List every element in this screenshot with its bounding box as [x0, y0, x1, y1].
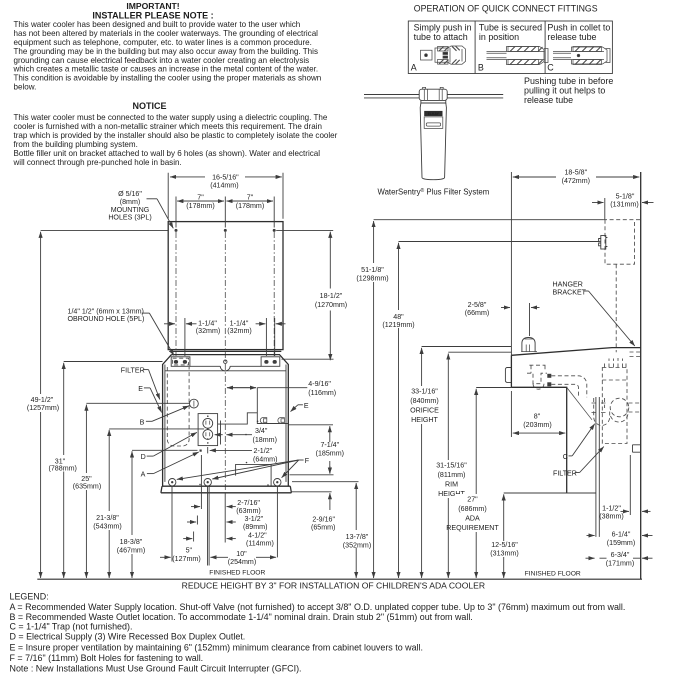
svg-text:This water cooler has been des: This water cooler has been designed and … — [14, 20, 301, 29]
dim 2-1/2 — [208, 447, 278, 463]
svg-text:C = 1-1/4" Trap (not furnished: C = 1-1/4" Trap (not furnished). — [10, 622, 133, 632]
svg-text:HOLES (3PL): HOLES (3PL) — [108, 214, 151, 222]
svg-text:BRACKET: BRACKET — [553, 288, 587, 296]
svg-text:REDUCE HEIGHT BY 3" FOR INSTAL: REDUCE HEIGHT BY 3" FOR INSTALLATION OF … — [182, 581, 485, 591]
svg-text:(32mm): (32mm) — [196, 327, 220, 335]
svg-text:7": 7" — [197, 194, 204, 202]
svg-text:Bottle filler unit on bracket: Bottle filler unit on bracket attached t… — [14, 149, 321, 158]
svg-text:LEGEND:: LEGEND: — [10, 592, 49, 602]
bubbler — [522, 338, 535, 352]
svg-text:WaterSentry® Plus Filter Syste: WaterSentry® Plus Filter System — [378, 187, 490, 197]
svg-text:NOTICE: NOTICE — [132, 101, 166, 111]
hanger teeth at wall — [630, 352, 641, 357]
svg-text:Tube is secured: Tube is secured — [479, 23, 542, 33]
svg-text:equipment such as telephone, c: equipment such as telephone, computer, e… — [14, 38, 312, 47]
svg-text:33-1/16": 33-1/16" — [411, 388, 438, 396]
label obround holes — [68, 308, 175, 356]
dim 4-9/16 — [227, 380, 336, 397]
water supply location A dot — [200, 450, 202, 452]
top seam with center notch and hole — [190, 366, 261, 371]
svg-text:(472mm): (472mm) — [562, 177, 590, 185]
svg-text:Simply push in: Simply push in — [414, 23, 472, 33]
svg-text:(64mm): (64mm) — [253, 455, 277, 463]
svg-text:(127mm): (127mm) — [172, 555, 200, 563]
svg-text:1-1/2": 1-1/2" — [602, 504, 621, 512]
svg-text:6-1/4": 6-1/4" — [612, 531, 631, 539]
drain stub at wall — [633, 445, 641, 452]
ext line 48 level — [399, 241, 600, 243]
svg-text:This water cooler must be conn: This water cooler must be connected to t… — [14, 113, 328, 122]
svg-text:3-1/2": 3-1/2" — [245, 515, 264, 523]
svg-text:27": 27" — [467, 496, 478, 504]
svg-text:(65mm): (65mm) — [311, 524, 335, 532]
leaders FILTER E B D A — [121, 367, 199, 479]
svg-text:(788mm): (788mm) — [49, 464, 77, 472]
finished floor line — [37, 578, 642, 580]
svg-text:HEIGHT: HEIGHT — [411, 416, 438, 424]
svg-text:FILTER: FILTER — [553, 469, 577, 477]
svg-text:(1219mm): (1219mm) — [382, 321, 414, 329]
wall line — [640, 172, 642, 579]
trap (dashed) — [594, 398, 641, 426]
mounting holes (3PL) — [175, 229, 178, 232]
svg-text:release tube: release tube — [547, 32, 596, 42]
svg-text:from the building plumbing sys: from the building plumbing system. — [14, 140, 138, 149]
svg-text:13-7/8": 13-7/8" — [346, 533, 369, 541]
svg-text:(1257mm): (1257mm) — [27, 404, 59, 412]
svg-text:8": 8" — [534, 412, 541, 420]
svg-text:48": 48" — [393, 313, 404, 321]
legend — [10, 592, 626, 674]
svg-text:(159mm): (159mm) — [607, 539, 635, 547]
fitting C — [553, 47, 610, 65]
svg-text:5": 5" — [186, 547, 193, 555]
svg-text:B = Recommended Waste Outlet l: B = Recommended Waste Outlet location. T… — [10, 612, 473, 622]
svg-text:(66mm): (66mm) — [465, 309, 489, 317]
C and FILTER leaders (side) — [553, 387, 604, 477]
svg-text:2-1/2": 2-1/2" — [254, 447, 273, 455]
svg-text:Push in collet to: Push in collet to — [547, 23, 610, 33]
svg-text:(414mm): (414mm) — [210, 182, 238, 190]
svg-text:(254mm): (254mm) — [228, 558, 256, 566]
dim 6-3/4 — [586, 551, 653, 568]
svg-text:E: E — [138, 385, 143, 393]
svg-text:release tube: release tube — [524, 95, 573, 105]
svg-text:F = 7/16" (11mm) Bolt Holes fo: F = 7/16" (11mm) Bolt Holes for fastenin… — [10, 653, 204, 663]
svg-text:3/4": 3/4" — [255, 427, 268, 435]
svg-text:A: A — [411, 62, 417, 72]
svg-text:in position: in position — [479, 32, 519, 42]
svg-text:18-5/8": 18-5/8" — [564, 169, 587, 177]
svg-text:Note : New Installations Must: Note : New Installations Must Use Ground… — [10, 663, 302, 673]
dim 6-1/4 — [587, 531, 653, 547]
svg-text:B: B — [478, 62, 484, 72]
svg-text:tube to attach: tube to attach — [414, 32, 468, 42]
svg-text:7": 7" — [247, 194, 254, 202]
svg-text:18-3/8": 18-3/8" — [120, 538, 143, 546]
top-left notice text block — [13, 1, 338, 167]
svg-text:(89mm): (89mm) — [243, 523, 267, 531]
svg-text:2-9/16": 2-9/16" — [312, 516, 335, 524]
fitting A — [421, 46, 466, 64]
svg-text:(185mm): (185mm) — [316, 449, 344, 457]
svg-text:HANGER: HANGER — [553, 280, 583, 288]
svg-text:F: F — [305, 457, 310, 465]
svg-text:C: C — [547, 62, 554, 72]
hanger bracket label and leader — [553, 280, 635, 346]
left height dims — [26, 230, 204, 578]
svg-text:4-1/2": 4-1/2" — [248, 532, 267, 540]
svg-text:FILTER: FILTER — [121, 367, 145, 375]
dims 1-1/4 left and right — [164, 318, 286, 356]
svg-text:RIM: RIM — [445, 481, 458, 489]
svg-text:(63mm): (63mm) — [236, 507, 260, 515]
svg-text:(543mm): (543mm) — [93, 523, 121, 531]
svg-text:OBROUND HOLE (5PL): OBROUND HOLE (5PL) — [68, 315, 145, 323]
svg-text:ADA: ADA — [465, 515, 480, 523]
svg-text:10": 10" — [236, 550, 247, 558]
svg-text:6-3/4": 6-3/4" — [611, 551, 630, 559]
pipe clamp ticks — [592, 403, 606, 413]
svg-text:(8mm): (8mm) — [120, 198, 141, 206]
svg-text:(131mm): (131mm) — [610, 201, 638, 209]
svg-text:(840mm): (840mm) — [410, 397, 438, 405]
cabinet bottom — [504, 492, 596, 494]
svg-text:49-1/2": 49-1/2" — [31, 396, 54, 404]
svg-text:C: C — [563, 453, 568, 461]
svg-text:IMPORTANT!: IMPORTANT! — [126, 1, 179, 11]
dim 5-1/8 — [592, 192, 654, 219]
svg-text:2-7/16": 2-7/16" — [237, 499, 260, 507]
dim 16-5/16 — [168, 173, 283, 219]
svg-text:A: A — [141, 471, 146, 479]
svg-text:trap which is provided by the: trap which is provided by the installer … — [14, 131, 338, 140]
electrical outlet D — [198, 414, 218, 446]
svg-text:below.: below. — [14, 83, 37, 92]
dims 7" / 7" — [176, 194, 274, 228]
label mounting holes — [108, 190, 173, 228]
svg-text:(635mm): (635mm) — [73, 483, 101, 491]
svg-text:51-1/8": 51-1/8" — [361, 266, 384, 274]
svg-text:(1270mm): (1270mm) — [315, 301, 347, 309]
svg-text:The grounding may be in the bu: The grounding may be in the building but… — [14, 47, 318, 56]
svg-text:(114mm): (114mm) — [246, 540, 274, 548]
svg-text:(811mm): (811mm) — [438, 471, 466, 479]
svg-text:(352mm): (352mm) — [343, 541, 371, 549]
svg-text:(313mm): (313mm) — [490, 549, 518, 557]
quick connect fittings panel — [408, 4, 613, 106]
bolt holes F (3) — [169, 479, 281, 486]
svg-text:16-5/16": 16-5/16" — [212, 173, 239, 181]
basin top and front — [511, 348, 640, 356]
upper mounting brackets with obround holes — [171, 357, 190, 367]
bottle filler in-wall chase (dashed) — [374, 219, 603, 221]
supply pipe (solid) — [596, 397, 599, 537]
svg-text:Pushing tube in before: Pushing tube in before — [524, 76, 613, 86]
svg-text:(178mm): (178mm) — [186, 202, 214, 210]
svg-text:2-5/8": 2-5/8" — [468, 301, 487, 309]
dim 2-9/16 and 13-7/8 — [290, 466, 372, 578]
side height dims stack — [356, 221, 518, 578]
svg-text:(32mm): (32mm) — [227, 327, 251, 335]
interior step outline and clips — [218, 388, 289, 425]
svg-text:MOUNTING: MOUNTING — [111, 206, 150, 214]
filter location dashed (front view) — [167, 367, 189, 446]
dim 2-5/8 — [465, 301, 540, 336]
base band — [161, 486, 292, 493]
dim 18-1/2 — [276, 230, 347, 360]
louver panel — [236, 464, 272, 485]
svg-text:(203mm): (203mm) — [523, 421, 551, 429]
svg-text:will connect through pre-punch: will connect through pre-punched hole in… — [13, 158, 182, 167]
svg-text:D: D — [141, 453, 146, 461]
svg-text:E = Insure proper ventilation: E = Insure proper ventilation by maintai… — [10, 643, 424, 653]
svg-text:(686mm): (686mm) — [458, 505, 486, 513]
svg-text:Ø 5/16": Ø 5/16" — [118, 190, 142, 198]
svg-text:FINISHED FLOOR: FINISHED FLOOR — [209, 570, 265, 577]
dim 8" — [511, 391, 565, 437]
svg-text:E: E — [304, 402, 309, 410]
dim 1-1/2 — [599, 455, 650, 521]
svg-text:grounding can cause electrical: grounding can cause electrical feedback … — [14, 56, 310, 65]
front push button — [505, 368, 511, 383]
svg-text:D = Electrical Supply (3) Wire: D = Electrical Supply (3) Wire Recessed … — [10, 631, 246, 641]
svg-text:pulling it out helps to: pulling it out helps to — [524, 86, 605, 96]
svg-text:21-3/8": 21-3/8" — [96, 514, 119, 522]
svg-text:which creates a metallic taste: which creates a metallic taste or causes… — [13, 65, 319, 74]
bottom dim rows — [160, 455, 277, 566]
filter cartridge in cabinet (dashed) — [602, 358, 627, 444]
svg-text:(1298mm): (1298mm) — [356, 275, 388, 283]
svg-text:(171mm): (171mm) — [606, 560, 634, 568]
dashed supply tubes to filter — [551, 376, 587, 398]
svg-text:12-5/16": 12-5/16" — [491, 541, 518, 549]
svg-text:31-15/16": 31-15/16" — [436, 462, 467, 470]
waste outlet circle B — [190, 399, 199, 408]
fitting B — [487, 45, 549, 67]
svg-text:(18mm): (18mm) — [253, 436, 277, 444]
svg-text:cooler is furnished with a non: cooler is furnished with a non-metallic … — [14, 122, 322, 131]
svg-text:18-1/2": 18-1/2" — [320, 292, 343, 300]
internal bubbler valve (dashed) — [527, 365, 547, 389]
basin rim seam — [165, 370, 286, 372]
svg-text:(178mm): (178mm) — [236, 202, 264, 210]
svg-text:ORIFICE: ORIFICE — [410, 407, 439, 415]
svg-text:B: B — [140, 418, 145, 426]
dim 18-5/8 — [511, 169, 639, 356]
filter cartridge illustration — [364, 87, 503, 196]
svg-text:7-1/4": 7-1/4" — [320, 441, 339, 449]
svg-text:ELKAY: ELKAY — [428, 112, 440, 116]
svg-text:This condition is avoidable by: This condition is avoidable by installin… — [14, 74, 322, 83]
bottle filler upper panel — [168, 222, 283, 350]
svg-text:(38mm): (38mm) — [599, 513, 623, 521]
svg-text:4-9/16": 4-9/16" — [308, 380, 331, 388]
dim 3/4 — [215, 421, 277, 445]
hole centerlines dash-dot — [175, 232, 177, 356]
cooler cabinet outline — [163, 355, 289, 487]
filler spout bracket on wall — [599, 236, 608, 250]
svg-text:OPERATION OF QUICK CONNECT FIT: OPERATION OF QUICK CONNECT FITTINGS — [414, 4, 598, 14]
svg-text:has not been altered by materi: has not been altered by materials in the… — [14, 29, 319, 38]
svg-text:REQUIREMENT: REQUIREMENT — [446, 524, 499, 532]
svg-text:FINISHED FLOOR: FINISHED FLOOR — [525, 570, 581, 577]
svg-text:5-1/8": 5-1/8" — [616, 192, 635, 200]
dim 7-1/4 — [289, 425, 344, 474]
right side E and F leaders — [177, 402, 310, 480]
svg-text:(467mm): (467mm) — [117, 547, 145, 555]
svg-text:(116mm): (116mm) — [308, 389, 336, 397]
svg-text:A = Recommended Water Supply l: A = Recommended Water Supply location. S… — [10, 602, 626, 612]
